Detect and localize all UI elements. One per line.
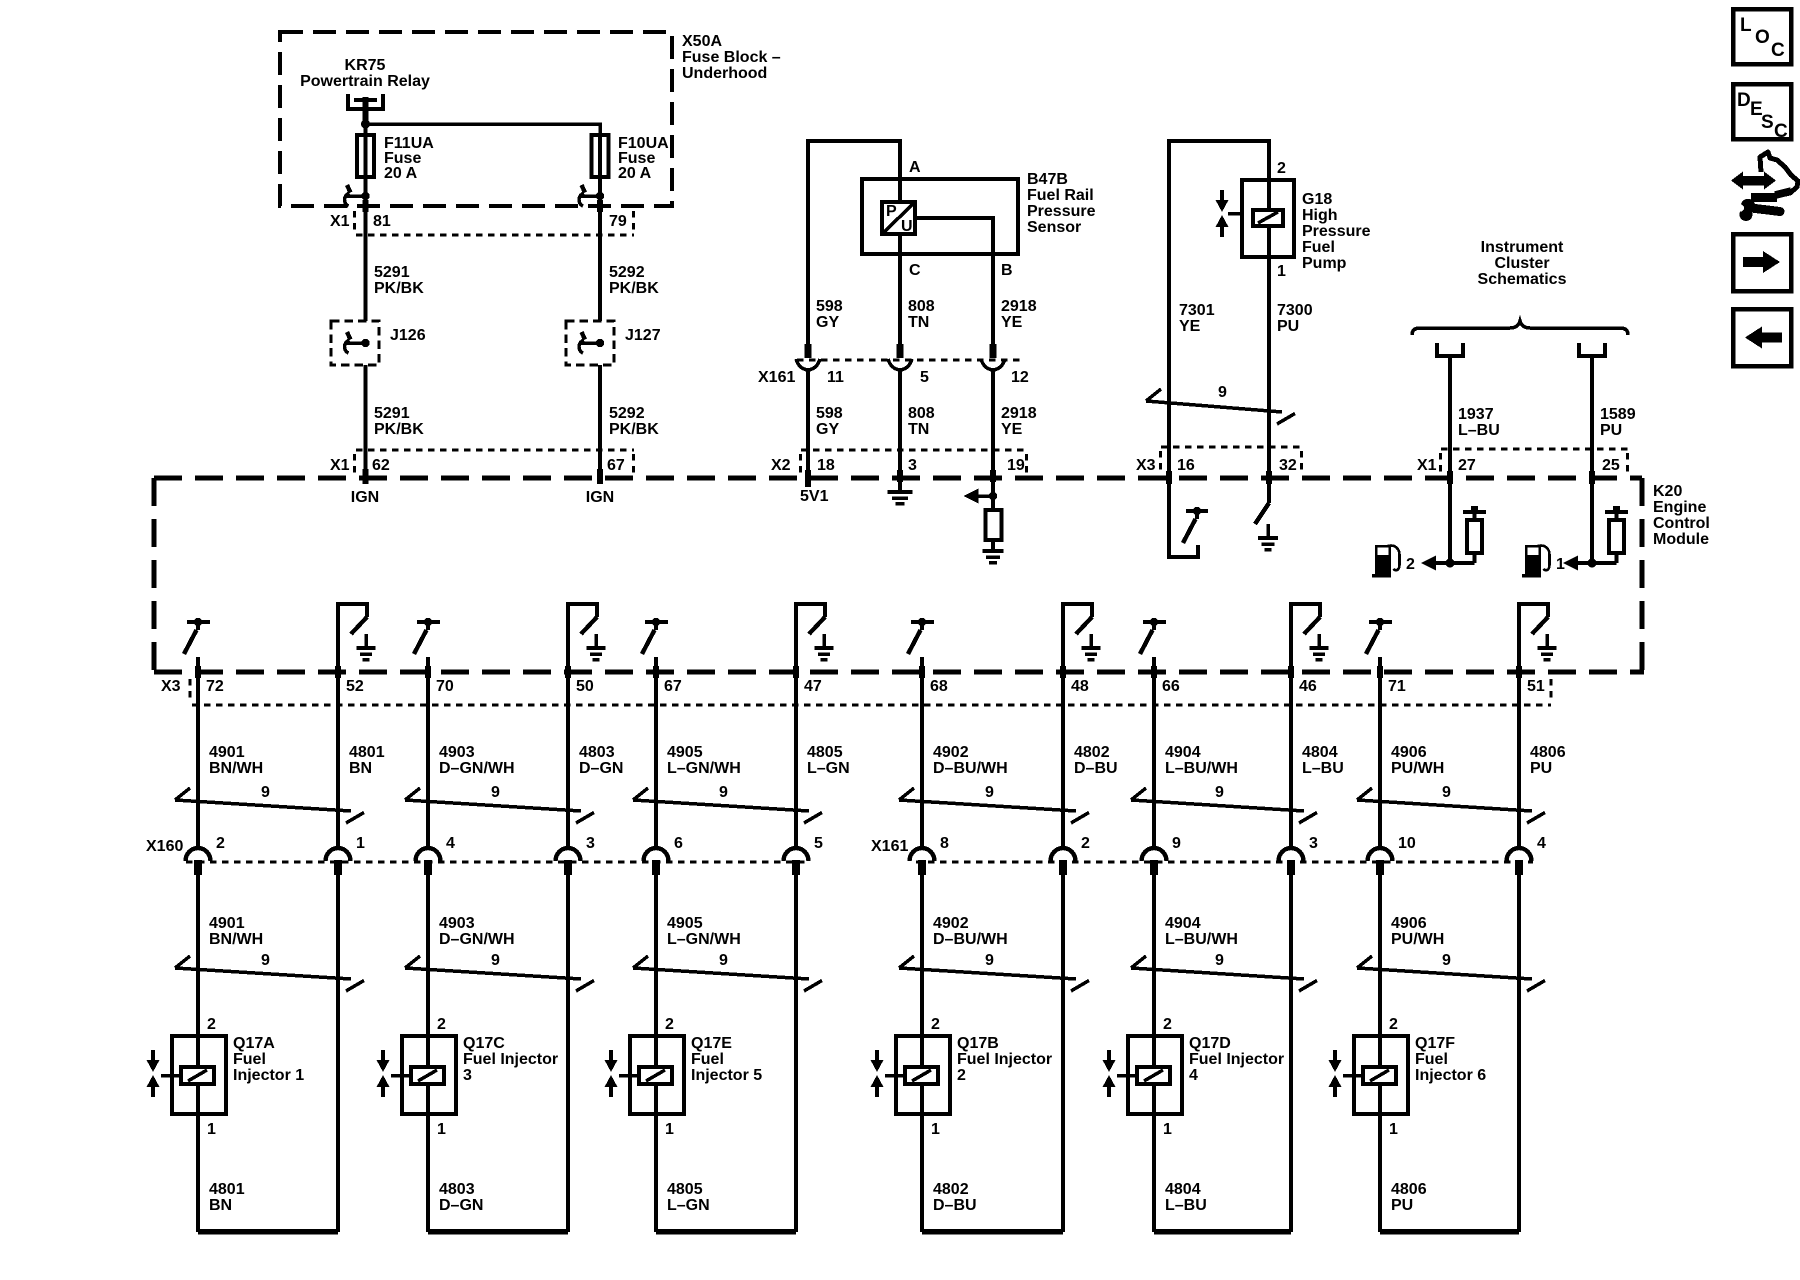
- twisted pair symbol lower 4902/4802: [899, 956, 1089, 991]
- svg-text:9: 9: [1215, 952, 1224, 969]
- instrument cluster schematics title: [1478, 239, 1567, 288]
- svg-text:4903: 4903: [439, 915, 475, 932]
- wire 4802 D–BU upper label: [1074, 744, 1118, 777]
- wire ticks at X3 pump crossings: [1166, 471, 1272, 484]
- sensor wire pin B segment: [991, 254, 995, 344]
- sensor B47B label: [1027, 171, 1096, 236]
- wire below F11UA: [363, 177, 367, 321]
- svg-text:2: 2: [1277, 160, 1286, 177]
- svg-text:72: 72: [206, 678, 224, 695]
- splice J127 hook: [579, 332, 604, 353]
- connector X1 ECM row dotted outline: [355, 450, 635, 475]
- svg-text:Injector 5: Injector 5: [691, 1067, 762, 1084]
- sensor B47B P/U transducer symbol: [882, 202, 915, 235]
- connector X161 injector dotted line: [916, 860, 1533, 863]
- svg-text:2: 2: [665, 1016, 674, 1033]
- svg-text:1: 1: [437, 1121, 446, 1138]
- svg-text:9: 9: [719, 784, 728, 801]
- wire through pump box: [1267, 180, 1271, 257]
- ground inside ECM below X2-3: [888, 478, 913, 504]
- fuel injector Q17D: [1117, 1036, 1182, 1114]
- fuse F10UA label: [618, 135, 669, 182]
- wire 4802 below injector Q17B: [920, 1114, 924, 1232]
- svg-text:50: 50: [576, 678, 594, 695]
- svg-text:Pressure: Pressure: [1027, 203, 1096, 220]
- wire below X160 terminal col 50: [566, 875, 570, 1232]
- pump G18 label: [1302, 191, 1371, 272]
- fuel injector Q17C: [391, 1036, 456, 1114]
- wire 598 GY lower label: [816, 405, 843, 438]
- svg-text:BN: BN: [209, 1197, 232, 1214]
- connector X160 terminal pin 1: [326, 848, 351, 875]
- wire tick at X3-72: [195, 666, 201, 678]
- wire 2918 YE lower segment: [991, 370, 995, 478]
- button forward arrow: [1733, 234, 1791, 291]
- svg-text:48: 48: [1071, 678, 1089, 695]
- connector X161 terminal pin 4: [1507, 848, 1532, 875]
- svg-text:2: 2: [1163, 1016, 1172, 1033]
- button LOC: [1733, 9, 1791, 64]
- wire return rail 4806: [1380, 1229, 1519, 1235]
- svg-text:L–BU: L–BU: [1165, 1197, 1207, 1214]
- svg-text:D–BU: D–BU: [933, 1197, 977, 1214]
- svg-text:67: 67: [607, 457, 625, 474]
- svg-text:PK/BK: PK/BK: [374, 421, 424, 438]
- svg-text:51: 51: [1527, 678, 1545, 695]
- svg-text:D–BU/WH: D–BU/WH: [933, 931, 1008, 948]
- wire below X161 terminal col 66: [1152, 875, 1156, 1037]
- svg-text:5291: 5291: [374, 264, 410, 281]
- ECM internal resistor branch below X2-19: [964, 478, 998, 510]
- svg-text:9: 9: [1172, 835, 1181, 852]
- ECM injector driver (high side) col 68: [908, 618, 934, 654]
- connector X1 ECM row: label and pins 62 67: [330, 457, 625, 474]
- svg-text:2: 2: [1081, 835, 1090, 852]
- wire 2918 YE lower label: [1001, 405, 1037, 438]
- wire 4901 BN/WH upper label: [209, 744, 263, 777]
- svg-text:X1: X1: [330, 213, 350, 230]
- wire 4906 from driver to X160 row: [1378, 657, 1382, 849]
- wire 7300 PU label: [1277, 302, 1313, 335]
- svg-text:D–GN: D–GN: [439, 1197, 483, 1214]
- connector X161 terminal pin 10: [1368, 848, 1393, 875]
- svg-text:1: 1: [1389, 1121, 1398, 1138]
- pump G18 solenoid symbol: [1253, 210, 1283, 226]
- wire 4903 from driver to X160 row: [426, 657, 430, 849]
- svg-text:L–BU/WH: L–BU/WH: [1165, 760, 1238, 777]
- svg-text:C: C: [909, 262, 921, 279]
- svg-text:D–GN/WH: D–GN/WH: [439, 931, 515, 948]
- injector Q17C inlet valve: [377, 1050, 390, 1097]
- svg-text:6: 6: [674, 835, 683, 852]
- svg-text:D–BU/WH: D–BU/WH: [933, 760, 1008, 777]
- svg-text:1937: 1937: [1458, 406, 1494, 423]
- svg-text:L–GN: L–GN: [667, 1197, 710, 1214]
- svg-text:46: 46: [1299, 678, 1317, 695]
- svg-text:1: 1: [356, 835, 365, 852]
- svg-text:7300: 7300: [1277, 302, 1313, 319]
- wire 4902 from driver to X160 row: [920, 657, 924, 849]
- svg-text:Fuel: Fuel: [1302, 239, 1335, 256]
- svg-text:Control: Control: [1653, 515, 1710, 532]
- ECM injector return driver col 51: [1519, 604, 1557, 672]
- wire 4805 from ECM to X160 row: [794, 672, 798, 849]
- sensor B47B box: [862, 179, 1018, 254]
- svg-text:598: 598: [816, 298, 843, 315]
- svg-text:Fuse Block –: Fuse Block –: [682, 49, 781, 66]
- wire return rail 4804: [1154, 1229, 1291, 1235]
- svg-text:4802: 4802: [933, 1181, 969, 1198]
- connector X160 terminal pin 3: [556, 848, 581, 875]
- svg-text:9: 9: [261, 952, 270, 969]
- svg-text:GY: GY: [816, 314, 839, 331]
- wire below F10UA: [598, 177, 602, 321]
- svg-text:9: 9: [1442, 784, 1451, 801]
- svg-text:32: 32: [1279, 457, 1297, 474]
- ECM K20 dashed box left edge: [151, 478, 156, 672]
- svg-text:YE: YE: [1001, 314, 1023, 331]
- svg-text:4902: 4902: [933, 915, 969, 932]
- wire 5291 PK/BK upper label: [374, 264, 424, 297]
- pump G18 inlet valve symbol: [1216, 190, 1243, 237]
- svg-text:Q17D: Q17D: [1189, 1035, 1231, 1052]
- svg-text:1589: 1589: [1600, 406, 1636, 423]
- svg-text:X1: X1: [330, 457, 350, 474]
- ground below ECM resistor: [982, 540, 1003, 563]
- ECM ground switch below X3-32: [1255, 478, 1278, 550]
- connector X1 cluster dotted outline: [1441, 449, 1629, 474]
- svg-text:9: 9: [261, 784, 270, 801]
- svg-text:18: 18: [817, 457, 835, 474]
- svg-text:4905: 4905: [667, 915, 703, 932]
- svg-text:71: 71: [1388, 678, 1406, 695]
- wire 4801 BN upper label: [349, 744, 385, 777]
- svg-text:Q17E: Q17E: [691, 1035, 732, 1052]
- ECM injector driver (high side) col 67: [642, 618, 668, 654]
- connector X160 terminal pin 6: [644, 848, 669, 875]
- twisted pair symbol 4902/4802: [899, 788, 1089, 823]
- fuel gauge arrow line 1: [1563, 556, 1617, 571]
- wire tick at X3-46: [1288, 666, 1294, 678]
- wire tick at X3-48: [1060, 666, 1066, 678]
- svg-text:4806: 4806: [1530, 744, 1566, 761]
- svg-text:25: 25: [1602, 457, 1620, 474]
- connector X3 dotted bracket left: [188, 679, 191, 701]
- wire relay to F11UA: [363, 124, 367, 136]
- ECM injector driver (high side) col 71: [1366, 618, 1392, 654]
- ECM fuel level output 1 wire: [1590, 478, 1594, 563]
- svg-text:L–BU/WH: L–BU/WH: [1165, 931, 1238, 948]
- svg-text:Fuel: Fuel: [233, 1051, 266, 1068]
- svg-text:Sensor: Sensor: [1027, 219, 1081, 236]
- wire 4904 L–BU/WH upper label: [1165, 744, 1238, 777]
- wire tick at X3-51: [1516, 666, 1522, 678]
- wire 2918 YE upper label: [1001, 298, 1037, 331]
- svg-text:X161: X161: [758, 369, 795, 386]
- connector X160 terminal pin 2: [186, 848, 211, 875]
- svg-text:K20: K20: [1653, 483, 1682, 500]
- fuel gauge arrow line 2: [1421, 556, 1475, 571]
- pump G18 top loop wire: [1169, 141, 1269, 478]
- ECM pull-up resistor 1: [1605, 506, 1628, 563]
- svg-text:Fuel Injector: Fuel Injector: [463, 1051, 558, 1068]
- ECM injector driver (high side) col 72: [184, 618, 210, 654]
- svg-text:TN: TN: [908, 421, 929, 438]
- connector X3 dotted line: [192, 703, 1551, 706]
- wire below X161 terminal col 51: [1517, 875, 1521, 1232]
- fuel pump icon 2: [1372, 545, 1400, 578]
- wire 808 TN lower label: [908, 405, 935, 438]
- svg-text:S: S: [1761, 112, 1774, 133]
- wire 4805 L–GN upper label: [807, 744, 850, 777]
- svg-text:4901: 4901: [209, 744, 245, 761]
- wire 5291 PK/BK lower label: [374, 405, 424, 438]
- wire below X161 terminal col 68: [920, 875, 924, 1037]
- wire tick at X1-79 crossing: [597, 200, 603, 212]
- injector Q17A inlet valve: [147, 1050, 160, 1097]
- connector X161 terminal pin 8: [910, 848, 935, 875]
- wire below X160 terminal col 70: [426, 875, 430, 1037]
- svg-text:IGN: IGN: [586, 489, 614, 506]
- wire below X160 terminal col 72: [196, 875, 200, 1037]
- svg-text:PU/WH: PU/WH: [1391, 931, 1444, 948]
- svg-text:Instrument: Instrument: [1481, 239, 1564, 256]
- svg-text:81: 81: [373, 213, 391, 230]
- svg-text:9: 9: [719, 952, 728, 969]
- svg-text:X1: X1: [1417, 457, 1437, 474]
- svg-text:4906: 4906: [1391, 915, 1427, 932]
- svg-text:4902: 4902: [933, 744, 969, 761]
- wire 4905 L–GN/WH upper label: [667, 744, 741, 777]
- svg-text:20 A: 20 A: [384, 165, 418, 182]
- fuel injector Q17F: [1343, 1036, 1408, 1114]
- wire 4901 from driver to X160 row: [196, 657, 200, 849]
- svg-text:9: 9: [491, 784, 500, 801]
- svg-text:1: 1: [207, 1121, 216, 1138]
- svg-text:5V1: 5V1: [800, 488, 829, 505]
- svg-text:79: 79: [609, 213, 627, 230]
- wire below X160 terminal col 67: [654, 875, 658, 1037]
- svg-text:Module: Module: [1653, 531, 1709, 548]
- svg-text:L: L: [1740, 15, 1752, 36]
- wire 4801 from ECM to X160 row: [336, 672, 340, 849]
- svg-text:A: A: [909, 159, 921, 176]
- fuel injector Q17E: [619, 1036, 684, 1114]
- svg-text:X3: X3: [1136, 457, 1156, 474]
- sensor B47B top loop wire: [808, 141, 900, 344]
- svg-text:4904: 4904: [1165, 744, 1201, 761]
- svg-text:PU/WH: PU/WH: [1391, 760, 1444, 777]
- svg-text:4905: 4905: [667, 744, 703, 761]
- injector Q17D inlet valve: [1103, 1050, 1116, 1097]
- ECM injector driver (high side) col 70: [414, 618, 440, 654]
- svg-text:Powertrain Relay: Powertrain Relay: [300, 73, 430, 90]
- svg-text:2918: 2918: [1001, 298, 1037, 315]
- svg-text:4: 4: [1189, 1067, 1198, 1084]
- svg-text:20 A: 20 A: [618, 165, 652, 182]
- svg-text:12: 12: [1011, 369, 1029, 386]
- splice J126 hook: [344, 332, 369, 353]
- svg-text:4: 4: [1537, 835, 1546, 852]
- ECM injector driver (high side) col 66: [1140, 618, 1166, 654]
- wire 4806 below injector Q17F: [1378, 1114, 1382, 1232]
- svg-text:19: 19: [1007, 457, 1025, 474]
- ECM pull-up resistor 2: [1463, 506, 1486, 563]
- X50A fuse block label: [682, 33, 781, 82]
- svg-text:Injector 1: Injector 1: [233, 1067, 304, 1084]
- wire 4802 from ECM to X160 row: [1061, 672, 1065, 849]
- wire 1589 PU segment: [1590, 356, 1594, 478]
- twisted pair symbol 4903/4803: [405, 788, 594, 823]
- wire 4906 PU/WH lower label: [1391, 915, 1444, 948]
- svg-text:1: 1: [665, 1121, 674, 1138]
- wire 808 TN upper label: [908, 298, 935, 331]
- svg-text:1: 1: [1277, 263, 1286, 280]
- svg-text:66: 66: [1162, 678, 1180, 695]
- svg-text:PK/BK: PK/BK: [374, 280, 424, 297]
- svg-text:U: U: [901, 218, 913, 235]
- splice J127 dashed box: [566, 321, 614, 365]
- twisted pair symbol 4904/4804: [1131, 788, 1317, 823]
- wire tick at X3-66: [1151, 666, 1157, 678]
- svg-text:3: 3: [908, 457, 917, 474]
- svg-text:C: C: [1771, 40, 1785, 61]
- injector Q17E label: [691, 1035, 762, 1084]
- svg-text:Q17F: Q17F: [1415, 1035, 1455, 1052]
- wire tick at X1-81 crossing: [363, 200, 369, 212]
- wire 4803 below injector Q17C: [426, 1114, 430, 1232]
- svg-text:Fuel: Fuel: [1415, 1051, 1448, 1068]
- svg-text:4801: 4801: [349, 744, 385, 761]
- wire 4806 PU upper label: [1530, 744, 1566, 777]
- wire 4902 D–BU/WH lower label: [933, 915, 1008, 948]
- svg-text:BN/WH: BN/WH: [209, 760, 263, 777]
- connector X2 row: label and pins 18 3 19: [771, 457, 1025, 474]
- wire 4805 L–GN bottom label: [667, 1181, 710, 1214]
- connector X161 sensor terminal pin 12: [981, 344, 1005, 370]
- wire 7300 PU segment: [1267, 257, 1271, 478]
- svg-text:L–GN/WH: L–GN/WH: [667, 931, 741, 948]
- junction node below relay: [361, 120, 370, 129]
- svg-text:5: 5: [920, 369, 929, 386]
- svg-text:Schematics: Schematics: [1478, 271, 1567, 288]
- svg-text:4901: 4901: [209, 915, 245, 932]
- wire through F11UA: [363, 136, 367, 177]
- connector X161 terminal pin 9: [1142, 848, 1167, 875]
- svg-text:1: 1: [931, 1121, 940, 1138]
- svg-text:11: 11: [827, 369, 844, 386]
- wire 4804 L–BU upper label: [1302, 744, 1344, 777]
- svg-text:68: 68: [930, 678, 948, 695]
- wire 4802 D–BU bottom label: [933, 1181, 977, 1214]
- relay KR75 contact symbol: [348, 94, 383, 124]
- wire tick at X3-67: [653, 666, 659, 678]
- wire 4804 from ECM to X160 row: [1289, 672, 1293, 849]
- svg-text:3: 3: [586, 835, 595, 852]
- wire 4903 D–GN/WH upper label: [439, 744, 515, 777]
- svg-text:PK/BK: PK/BK: [609, 280, 659, 297]
- svg-text:GY: GY: [816, 421, 839, 438]
- fuel pump icon 1: [1522, 545, 1550, 578]
- svg-text:3: 3: [463, 1067, 472, 1084]
- injector Q17F inlet valve: [1329, 1050, 1342, 1097]
- connector X161 terminal pin 2: [1051, 848, 1076, 875]
- wire 808 TN lower segment: [898, 370, 902, 478]
- svg-text:O: O: [1755, 27, 1770, 48]
- wire 4805 below injector Q17E: [654, 1114, 658, 1232]
- svg-text:5291: 5291: [374, 405, 410, 422]
- cluster terminal fork right: [1579, 343, 1605, 356]
- svg-text:4806: 4806: [1391, 1181, 1427, 1198]
- wire 598 GY upper label: [816, 298, 843, 331]
- injector Q17E inlet valve: [605, 1050, 618, 1097]
- connector X160 terminal pin 5: [784, 848, 809, 875]
- svg-text:Fuel Injector: Fuel Injector: [957, 1051, 1052, 1068]
- connector X1 fuse block row: label and pins 81 79: [330, 213, 627, 230]
- svg-text:70: 70: [436, 678, 454, 695]
- svg-text:2: 2: [1389, 1016, 1398, 1033]
- injector Q17B inlet valve: [871, 1050, 884, 1097]
- connector X3 dotted bracket right: [1549, 679, 1552, 701]
- wire ticks at X2 crossings: [805, 470, 996, 487]
- svg-text:B: B: [1001, 262, 1013, 279]
- button back arrow: [1733, 309, 1791, 366]
- twisted pair symbol lower 4906/4806: [1357, 956, 1545, 991]
- connector X3 pump dotted outline: [1161, 447, 1303, 474]
- twisted pair symbol lower 4903/4803: [405, 956, 594, 991]
- wire 4902 D–BU/WH upper label: [933, 744, 1008, 777]
- wire 4806 from ECM to X160 row: [1517, 672, 1521, 849]
- connector X160 terminal pin 4: [416, 848, 441, 875]
- svg-text:J127: J127: [625, 327, 661, 344]
- svg-text:4903: 4903: [439, 744, 475, 761]
- wire 5292 lower segment: [598, 365, 602, 478]
- svg-text:598: 598: [816, 405, 843, 422]
- connector X3 pump row: label and pins 16 32: [1136, 457, 1297, 474]
- connector X2 dotted outline: [801, 450, 1028, 475]
- svg-text:PK/BK: PK/BK: [609, 421, 659, 438]
- svg-text:Q17B: Q17B: [957, 1035, 999, 1052]
- svg-text:4906: 4906: [1391, 744, 1427, 761]
- svg-text:D: D: [1737, 90, 1751, 111]
- svg-text:47: 47: [804, 678, 822, 695]
- pump G18 box: [1242, 180, 1294, 257]
- injector Q17A label: [233, 1035, 304, 1084]
- relay KR75 label: [300, 57, 430, 90]
- ECM fuel pump driver switch below X3-16: [1169, 478, 1208, 557]
- svg-text:4904: 4904: [1165, 915, 1201, 932]
- wire below X161 terminal col 71: [1378, 875, 1382, 1037]
- wire return rail 4802: [922, 1229, 1063, 1235]
- fuel injector Q17A: [161, 1036, 226, 1114]
- svg-text:J126: J126: [390, 327, 426, 344]
- sensor internal wire to pin B: [915, 218, 993, 254]
- svg-text:4804: 4804: [1302, 744, 1338, 761]
- svg-text:G18: G18: [1302, 191, 1332, 208]
- svg-text:D–GN/WH: D–GN/WH: [439, 760, 515, 777]
- ECM K20 dashed box right edge: [1639, 478, 1644, 672]
- sensor wire pin C segment: [898, 234, 902, 344]
- connector X1 fuse row dotted outline: [355, 211, 635, 235]
- wire 4904 L–BU/WH lower label: [1165, 915, 1238, 948]
- cluster terminal fork left: [1437, 343, 1463, 356]
- connector X161 sensor terminal pin 5: [888, 344, 912, 370]
- ECM fuel level output 2 wire: [1448, 478, 1452, 563]
- fuse F11UA label: [384, 135, 434, 182]
- wire tick at X1-62: [363, 469, 369, 484]
- connector X1 cluster row: label and pins 27 25: [1417, 457, 1620, 474]
- svg-text:2: 2: [1406, 556, 1415, 573]
